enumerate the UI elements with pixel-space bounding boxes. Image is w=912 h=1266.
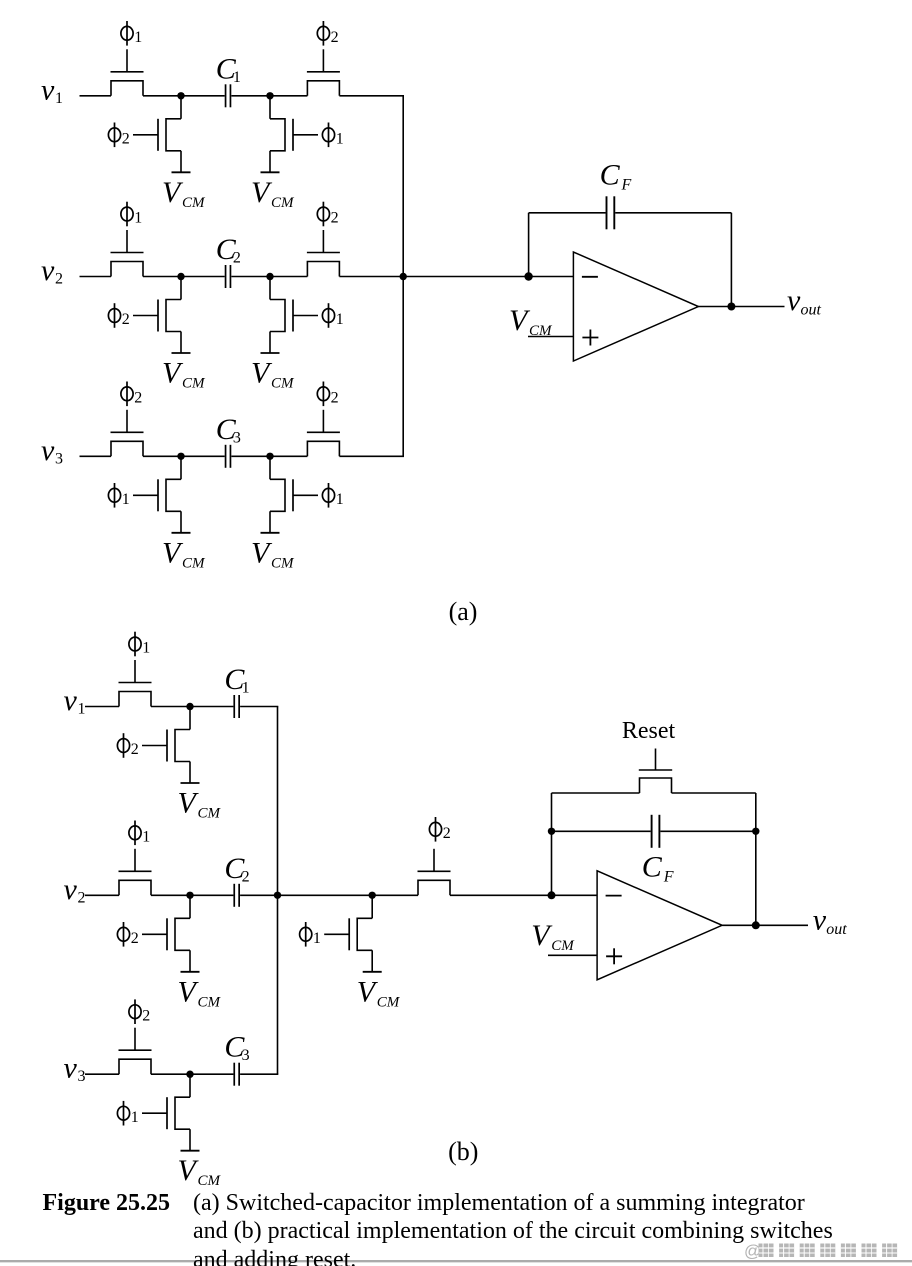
label (a)	[449, 597, 478, 626]
svg-text:1: 1	[242, 680, 250, 697]
junction dot output (circuit a)	[727, 303, 735, 311]
svg-text:1: 1	[142, 829, 150, 846]
svg-text:1: 1	[336, 131, 344, 148]
svg-text:CM: CM	[198, 1173, 222, 1189]
label phi1 for transistor series switch phi1 at v1 input (circuit a)	[121, 21, 142, 46]
label VCM of transistor shunt to VCM left of C2 (circuit a)	[162, 357, 206, 392]
svg-text:2: 2	[242, 868, 250, 885]
wire v3 input (circuit a)	[80, 455, 112, 457]
label phi1 for transistor shunt phi1 to VCM at summing node (circuit b)	[300, 922, 321, 947]
svg-text:1: 1	[233, 69, 241, 86]
wire C2 right plate to output switch (circuit a)	[231, 276, 307, 278]
wire row v2 to op-amp inverting input (circuit a)	[339, 276, 573, 278]
node dot right of C3 (circuit a)	[266, 453, 273, 460]
svg-text:1: 1	[336, 311, 344, 328]
label VCM of transistor shunt to VCM below v2 node (circuit b)	[178, 975, 222, 1010]
wire v3 input (circuit b)	[85, 1073, 119, 1075]
label CF (circuit a)	[600, 159, 632, 194]
wire row v3 to summing bus (circuit a)	[339, 455, 404, 457]
VCM terminal of transistor shunt to VCM right of C1 (circuit a)	[261, 171, 280, 173]
svg-text:2: 2	[233, 250, 241, 267]
label C2	[224, 852, 249, 886]
VCM terminal of transistor shunt to VCM left of C2 (circuit a)	[172, 352, 191, 354]
label phi2 for transistor shunt to VCM below v2 node (circuit b)	[117, 922, 138, 947]
node v2 label (circuit a)	[41, 254, 63, 288]
svg-text:v: v	[64, 684, 78, 717]
watermark	[744, 1242, 897, 1261]
wire reset branch left (circuit b)	[552, 792, 640, 794]
transistor shunt to VCM below v1 node (circuit b)	[142, 707, 190, 784]
wire v2 switch to C2 (circuit b)	[151, 894, 233, 896]
svg-text:1: 1	[55, 90, 63, 107]
label phi2 for transistor series switch phi2 at C1 output (circuit a)	[317, 21, 338, 46]
label phi1 for transistor shunt to VCM right of C3 (circuit a)	[322, 483, 343, 508]
wire feedback right vertical (circuit b)	[755, 793, 757, 925]
VCM terminal of transistor shunt to VCM below v1 node (circuit b)	[181, 782, 200, 784]
svg-text:3: 3	[242, 1047, 250, 1064]
wire CF branch left (circuit b)	[552, 830, 651, 832]
wire op-amp output (circuit a)	[698, 306, 784, 308]
transistor shunt to VCM left of C3 (circuit a)	[133, 456, 181, 533]
transistor series switch phi2 at C3 output (circuit a)	[307, 410, 340, 457]
node dot left of C2 (circuit b)	[186, 892, 193, 899]
label VCM of transistor shunt to VCM right of C1 (circuit a)	[251, 176, 295, 211]
label VCM of transistor shunt to VCM left of C1 (circuit a)	[162, 176, 206, 211]
svg-text:CM: CM	[182, 555, 206, 571]
wire v3 switch to C3 (circuit b)	[151, 1073, 233, 1075]
label phi2 for transistor shunt to VCM below v1 node (circuit b)	[117, 733, 138, 758]
transistor shunt to VCM left of C1 (circuit a)	[133, 96, 181, 173]
svg-text:CM: CM	[182, 195, 206, 211]
transistor shunt to VCM right of C3 (circuit a)	[270, 456, 318, 533]
node v3 label (circuit b)	[64, 1052, 86, 1086]
caption figure number	[43, 1190, 171, 1216]
svg-text:1: 1	[122, 491, 130, 508]
svg-text:2: 2	[122, 131, 130, 148]
label phi2 for transistor series switch phi2 at C3 output (circuit a)	[317, 382, 338, 407]
svg-text:and adding reset.: and adding reset.	[193, 1247, 356, 1266]
wire C3 right plate to output switch (circuit a)	[231, 455, 307, 457]
label C1	[224, 663, 249, 697]
svg-text:3: 3	[78, 1068, 86, 1085]
wire v1 switch to C1 left plate (circuit a)	[143, 95, 225, 97]
node dot left of C1 (circuit a)	[177, 92, 184, 99]
svg-text:C: C	[642, 850, 663, 883]
capacitor C2 (circuit b)	[234, 884, 239, 907]
svg-text:1: 1	[313, 930, 321, 947]
label vout (circuit b)	[813, 904, 848, 939]
wire phi2 switch to op-amp inverting input (circuit b)	[450, 894, 597, 896]
wire summing bus vertical (circuit b)	[277, 707, 279, 1075]
transistor shunt to VCM right of C1 (circuit a)	[270, 96, 318, 173]
svg-text:(a) Switched-capacitor impleme: (a) Switched-capacitor implementation of…	[193, 1190, 805, 1216]
VCM terminal of transistor shunt to VCM right of C2 (circuit a)	[261, 352, 280, 354]
wire feedback top right (circuit a)	[615, 212, 731, 214]
transistor series switch phi2 at v3 input (circuit a)	[111, 410, 144, 457]
svg-text:v: v	[41, 73, 55, 106]
capacitor C3 (circuit a)	[226, 445, 231, 468]
wire feedback left vertical (circuit b)	[551, 793, 553, 895]
capacitor C1 (circuit b)	[234, 695, 239, 718]
transistor shunt phi1 to VCM at summing node (circuit b)	[324, 895, 372, 972]
wire C3 to summing bus (circuit b)	[240, 1073, 278, 1075]
wire summing bus vertical (circuit a)	[402, 96, 404, 457]
svg-text:v: v	[41, 434, 55, 467]
wire row v1 to summing bus (circuit a)	[339, 95, 404, 97]
capacitor C3 (circuit b)	[234, 1063, 239, 1086]
VCM terminal of transistor shunt to VCM below v3 node (circuit b)	[181, 1150, 200, 1152]
capacitor C2 (circuit a)	[226, 265, 231, 288]
junction dot CF left (circuit b)	[548, 828, 555, 835]
label CF (circuit b)	[642, 850, 674, 885]
wire v2 switch to C2 left plate (circuit a)	[143, 276, 225, 278]
label phi1 for transistor series switch phi1 at v2 input (circuit b)	[129, 821, 150, 846]
svg-text:CM: CM	[377, 994, 401, 1010]
transistor series switch phi2 at C2 output (circuit a)	[307, 230, 340, 277]
svg-text:1: 1	[134, 29, 142, 46]
node dot left of C2 (circuit a)	[177, 273, 184, 280]
label phi1 for transistor series switch phi1 at v2 input (circuit a)	[121, 202, 142, 227]
svg-text:2: 2	[78, 889, 86, 906]
op-amp U1 (circuit a)	[573, 252, 698, 361]
transistor series switch phi2 at C1 output (circuit a)	[307, 49, 340, 96]
VCM terminal of transistor shunt to VCM below v2 node (circuit b)	[181, 971, 200, 973]
transistor series switch phi2 at v3 input (circuit b)	[119, 1028, 152, 1075]
svg-text:2: 2	[331, 29, 339, 46]
wire C1 to summing bus (circuit b)	[240, 706, 278, 708]
label phi1 for transistor shunt to VCM below v3 node (circuit b)	[117, 1101, 138, 1126]
svg-text:2: 2	[331, 210, 339, 227]
label Reset	[622, 718, 676, 744]
node dot op-amp inverting input (circuit b)	[548, 891, 556, 899]
svg-text:2: 2	[142, 1007, 150, 1024]
svg-text:2: 2	[443, 825, 451, 842]
label phi2 for transistor series switch phi2 at C2 output (circuit a)	[317, 202, 338, 227]
svg-text:v: v	[787, 284, 801, 317]
svg-text:3: 3	[233, 429, 241, 446]
label phi2 for transistor shunt to VCM left of C2 (circuit a)	[108, 303, 129, 328]
VCM terminal of transistor shunt to VCM right of C3 (circuit a)	[261, 532, 280, 534]
wire CF branch right (circuit b)	[660, 830, 755, 832]
transistor reset switch (circuit b)	[639, 749, 672, 794]
node v2 label (circuit b)	[64, 873, 86, 907]
svg-text:Figure 25.25: Figure 25.25	[43, 1190, 171, 1216]
capacitor C1 (circuit a)	[226, 84, 231, 107]
svg-text:2: 2	[131, 741, 139, 758]
wire VCM to noninverting input (circuit a)	[528, 336, 573, 338]
transistor series switch phi1 at v2 input (circuit a)	[111, 230, 144, 277]
svg-text:(b): (b)	[448, 1137, 478, 1166]
svg-text:CM: CM	[198, 994, 222, 1010]
svg-text:2: 2	[331, 390, 339, 407]
label VCM at op-amp noninverting input (circuit b)	[531, 919, 575, 954]
capacitor CF (circuit b)	[652, 815, 660, 848]
transistor shunt to VCM right of C2 (circuit a)	[270, 277, 318, 354]
op-amp U2 (circuit b)	[597, 871, 722, 980]
wire C1 right plate to output switch (circuit a)	[231, 95, 307, 97]
svg-text:F: F	[621, 177, 632, 194]
junction dot bus at row v2 (circuit b)	[274, 892, 281, 899]
svg-text:CM: CM	[271, 555, 295, 571]
svg-text:1: 1	[142, 640, 150, 657]
junction dot output (circuit b)	[752, 921, 760, 929]
wire v2 input (circuit a)	[80, 276, 112, 278]
svg-text:CM: CM	[271, 195, 295, 211]
wire C2 to phi2 switch (circuit b)	[240, 894, 418, 896]
label phi2 for transistor series switch phi2 at v3 input (circuit a)	[121, 382, 142, 407]
svg-text:CM: CM	[182, 376, 206, 392]
svg-text:and (b) practical implementati: and (b) practical implementation of the …	[193, 1218, 833, 1244]
wire v1 input (circuit a)	[80, 95, 112, 97]
transistor shunt to VCM left of C2 (circuit a)	[133, 277, 181, 354]
caption line 2	[193, 1218, 833, 1244]
svg-text:1: 1	[134, 210, 142, 227]
label phi2 for transistor shunt to VCM left of C1 (circuit a)	[108, 123, 129, 148]
svg-text:F: F	[663, 868, 674, 885]
transistor series switch phi1 at v1 input (circuit a)	[111, 49, 144, 96]
node v1 label (circuit a)	[41, 73, 63, 107]
transistor series switch phi2 to op-amp (circuit b)	[418, 849, 451, 896]
node dot left of C1 (circuit b)	[186, 703, 193, 710]
label VCM of transistor shunt to VCM right of C3 (circuit a)	[251, 536, 295, 571]
node dot left of C3 (circuit b)	[186, 1071, 193, 1078]
svg-text:2: 2	[134, 390, 142, 407]
wire v1 input (circuit b)	[85, 706, 119, 708]
label VCM of transistor shunt to VCM below v3 node (circuit b)	[178, 1154, 222, 1189]
label (b)	[448, 1137, 478, 1166]
junction dot bus at row v2 (circuit a)	[400, 273, 407, 280]
label VCM of transistor shunt to VCM left of C3 (circuit a)	[162, 536, 206, 571]
label vout (circuit a)	[787, 284, 822, 319]
label phi1 for transistor shunt to VCM right of C2 (circuit a)	[322, 303, 343, 328]
wire v2 input (circuit b)	[85, 894, 119, 896]
node v3 label (circuit a)	[41, 434, 63, 468]
capacitor CF (circuit a)	[607, 196, 615, 229]
wire reset branch right (circuit b)	[672, 792, 756, 794]
svg-text:CM: CM	[551, 938, 575, 954]
label C3	[216, 413, 241, 447]
page bottom rule	[0, 1260, 912, 1262]
svg-text:1: 1	[131, 1109, 139, 1126]
svg-text:out: out	[801, 302, 822, 319]
label phi2 for transistor series switch phi2 at v3 input (circuit b)	[129, 999, 150, 1024]
svg-text:Reset: Reset	[622, 718, 676, 744]
svg-text:C: C	[600, 159, 621, 192]
transistor shunt to VCM below v2 node (circuit b)	[142, 895, 190, 972]
wire v3 switch to C3 left plate (circuit a)	[143, 455, 225, 457]
label VCM at op-amp noninverting input (circuit a)	[509, 304, 553, 339]
label phi1 for transistor shunt to VCM left of C3 (circuit a)	[108, 483, 129, 508]
label phi1 for transistor shunt to VCM right of C1 (circuit a)	[322, 123, 343, 148]
svg-text:out: out	[826, 921, 847, 938]
svg-text:v: v	[64, 873, 78, 906]
wire v1 switch to C1 (circuit b)	[151, 706, 233, 708]
VCM terminal of transistor shunt to VCM left of C3 (circuit a)	[172, 532, 191, 534]
caption line 3 (clipped)	[193, 1247, 356, 1266]
transistor series switch phi1 at v2 input (circuit b)	[119, 849, 152, 896]
svg-text:v: v	[64, 1052, 78, 1085]
wire op-amp output (circuit b)	[722, 924, 808, 926]
wire feedback top left (circuit a)	[529, 212, 606, 214]
svg-text:1: 1	[78, 701, 86, 718]
caption line 1	[193, 1190, 805, 1216]
label VCM of transistor shunt to VCM below v1 node (circuit b)	[178, 787, 222, 822]
svg-text:CM: CM	[271, 376, 295, 392]
svg-text:1: 1	[336, 491, 344, 508]
node v1 label (circuit b)	[64, 684, 86, 718]
wire feedback left vertical (circuit a)	[528, 213, 530, 277]
node dot right of C1 (circuit a)	[266, 92, 273, 99]
svg-text:v: v	[41, 254, 55, 287]
svg-text:2: 2	[55, 271, 63, 288]
svg-text:3: 3	[55, 450, 63, 467]
svg-text:v: v	[813, 904, 827, 937]
wire VCM to noninverting input (circuit b)	[548, 954, 597, 956]
svg-text:(a): (a)	[449, 597, 478, 626]
node dot right of C2 (circuit a)	[266, 273, 273, 280]
transistor series switch phi1 at v1 input (circuit b)	[119, 660, 152, 707]
label VCM of transistor shunt to VCM right of C2 (circuit a)	[251, 357, 295, 392]
wire feedback right vertical (circuit a)	[730, 213, 732, 307]
label phi2 for op-amp input switch (circuit b)	[429, 817, 450, 842]
svg-text:2: 2	[122, 311, 130, 328]
label C1	[216, 52, 241, 86]
VCM terminal of transistor shunt to VCM left of C1 (circuit a)	[172, 171, 191, 173]
node dot at shunt phi1 switch (circuit b)	[369, 892, 376, 899]
VCM terminal of transistor shunt phi1 to VCM at summing node (circuit b)	[363, 971, 382, 973]
label VCM of transistor shunt phi1 to VCM at summing node (circuit b)	[357, 975, 401, 1010]
label phi1 for transistor series switch phi1 at v1 input (circuit b)	[129, 632, 150, 657]
node dot left of C3 (circuit a)	[177, 453, 184, 460]
label C3	[224, 1031, 249, 1065]
node dot op-amp inverting input (circuit a)	[524, 272, 532, 280]
svg-text:2: 2	[131, 930, 139, 947]
transistor shunt to VCM below v3 node (circuit b)	[142, 1074, 190, 1151]
svg-text:CM: CM	[198, 806, 222, 822]
label C2	[216, 233, 241, 267]
junction dot CF right (circuit b)	[752, 828, 759, 835]
